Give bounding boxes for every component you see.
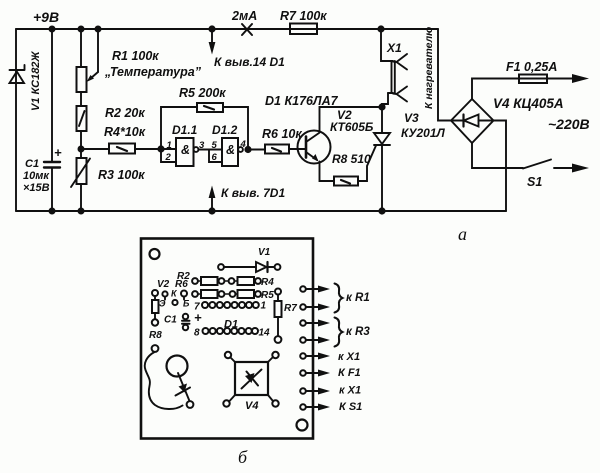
svg-text:C1: C1 [164,315,177,326]
svg-text:R7 100к: R7 100к [280,9,327,23]
labels V2 pins [157,279,190,309]
transistor V2 pads [152,290,187,305]
junction top wiper [95,26,102,33]
IC D1 pads row 2 [203,328,259,334]
svg-text:R8 510: R8 510 [332,152,371,166]
fuse F1 [472,74,589,99]
resistor row R6 R5 [192,290,261,298]
label V4 [493,96,564,111]
label R5 [179,86,226,100]
svg-text:V2: V2 [157,279,170,290]
bridge rectifier V4 [451,99,494,143]
resistor R7 [290,24,317,35]
label pin14 [214,55,285,69]
junction bottom pin7 [208,207,215,214]
junction top rail X1 [377,25,384,32]
svg-text:R7: R7 [284,303,297,314]
svg-text:8: 8 [194,328,200,339]
svg-text:6: 6 [212,152,218,163]
label D1 [224,319,238,331]
label C1 plus [54,145,62,160]
svg-text:X1: X1 [386,41,402,55]
label k R3 [346,326,370,338]
label R8 pcb [149,330,162,341]
label k S1 [339,401,362,413]
label R5 [261,290,274,301]
label 2mA [231,9,257,23]
node input D1.1 [157,145,164,152]
svg-text:R5: R5 [261,290,274,301]
svg-text:5: 5 [212,140,218,151]
svg-text:~220В: ~220В [548,116,590,132]
transistor V2 [298,107,383,181]
svg-text:×15В: ×15В [23,182,50,194]
capacitor C1 [44,29,60,211]
label R2 [177,271,190,282]
label R4 [104,125,146,139]
label R4 [261,277,274,288]
svg-text:V3: V3 [404,111,419,125]
gate D1.1 [161,138,198,166]
resistor R5 [197,103,248,149]
junction bottom R3 [78,208,85,215]
wire bottom rail [16,210,506,212]
resistor row R2 R4 [192,277,261,285]
label C1 pcb [164,310,202,326]
connector X1 [381,29,407,107]
wire feedback left [161,107,197,149]
junction R4 tap [78,146,85,153]
node +9V label [33,9,59,25]
svg-text:&: & [181,143,190,157]
svg-text:2мА: 2мА [231,9,257,23]
label V3 [401,111,446,140]
svg-text:R3 100к: R3 100к [98,168,145,182]
svg-text:R4*10к: R4*10к [104,125,146,139]
svg-text:R6: R6 [175,279,188,290]
label F1 [506,60,557,74]
svg-text:+9В: +9В [33,9,59,25]
svg-text:R2 20к: R2 20к [105,106,145,120]
svg-text:„Температура”: „Температура” [104,65,202,79]
svg-text:2: 2 [165,152,172,163]
svg-text:+: + [54,145,62,160]
label V4 pcb [245,400,258,412]
label S1 [527,175,542,189]
R1 wiper arrow [87,29,99,82]
arrow to pin7 D1 [209,186,216,212]
label a [458,224,467,244]
label D1 type [265,94,339,108]
switch S1 [472,143,589,173]
potentiometer R1 [77,29,87,106]
thyristor V3 pcb [145,345,194,409]
svg-text:7: 7 [194,302,200,313]
label k R1 [346,292,370,304]
label k X1 [338,351,360,363]
svg-text:14: 14 [259,328,271,339]
svg-text:К S1: К S1 [339,401,362,413]
svg-text:V1: V1 [258,247,271,258]
svg-text:R1 100к: R1 100к [112,49,159,63]
svg-text:к R1: к R1 [346,292,370,304]
brace k R1 [335,284,343,313]
label D1.2 pins [212,123,247,163]
labels D1 row1 [194,301,267,313]
node output D1.2 [244,146,251,153]
junction top R1 [78,26,85,33]
label k X1 second [339,385,361,397]
arrow to pin14 D1 [209,29,216,55]
PCB board outline [141,239,313,439]
label mains [548,116,590,132]
zener diode V1 [10,65,25,83]
gate D1.2 [222,138,243,166]
thyristor V3 [374,107,390,211]
svg-text:F1 0,25А: F1 0,25А [506,60,557,74]
svg-text:Б: Б [183,299,190,309]
svg-text:10мк: 10мк [23,170,50,182]
svg-text:К: К [171,289,178,299]
svg-text:D1.1: D1.1 [172,123,198,137]
svg-text:R6 10к: R6 10к [262,127,302,141]
svg-text:б: б [238,447,248,467]
label pin7 [221,186,285,200]
label b [238,447,248,467]
bridge V4 pcb [223,352,278,407]
resistor R8 [334,146,376,186]
label R6 [262,127,302,141]
svg-text:&: & [226,143,235,157]
wire bridge right to bottom rail [494,121,507,212]
IC D1 pads row 1 [202,302,259,308]
label X1 [386,41,402,55]
svg-text:к X1: к X1 [339,385,361,397]
label k F1 [338,367,361,379]
junction bottom V3 [378,207,385,214]
svg-text:D1 К176ЛА7: D1 К176ЛА7 [265,94,339,108]
junction arrow pin14 [208,25,215,32]
label V1 pcb [258,247,271,258]
capacitor C1 pcb [182,314,190,330]
thermistor R3 [71,158,90,211]
label V1 value [30,51,42,111]
svg-text:R4: R4 [261,277,274,288]
svg-text:C1: C1 [25,158,39,170]
label R1 [104,49,202,79]
mounting hole top-left [150,249,160,259]
wire left vertical [15,29,17,211]
labels D1 row2 [194,328,270,339]
junction bottom C1 [49,208,56,215]
svg-text:V4: V4 [245,400,258,412]
svg-text:V1 КС182Ж: V1 КС182Ж [30,51,42,111]
resistor R2 [77,106,87,158]
svg-text:к X1: к X1 [338,351,360,363]
svg-text:КТ605Б: КТ605Б [330,120,374,134]
break mark X on rail [242,24,252,35]
wire gate1 to gate2 [199,149,223,151]
label R7 pcb [284,303,297,314]
resistor R8 pcb [152,300,159,326]
label R7 [280,9,327,23]
wire top rail +9V [16,28,438,30]
diode V1 pads [218,262,280,272]
pin6 loop D1.2 [209,150,222,163]
svg-text:к R3: к R3 [346,326,370,338]
resistor R7 pcb [275,289,282,343]
svg-text:КУ201Л: КУ201Л [401,126,446,140]
junction top C1 [49,26,56,33]
svg-text:К выв. 7D1: К выв. 7D1 [221,186,285,200]
svg-text:V4 КЦ405А: V4 КЦ405А [493,96,564,111]
svg-text:S1: S1 [527,175,542,189]
svg-text:Э: Э [159,299,166,309]
svg-text:R5 200к: R5 200к [179,86,226,100]
resistor R6 [248,145,306,154]
svg-text:1: 1 [261,301,267,312]
label R3 [98,168,145,182]
mounting hole bottom-right [297,420,308,431]
label C1 [23,158,50,194]
svg-text:К F1: К F1 [338,367,361,379]
label R2 [105,106,145,120]
label D1.1 pins [165,123,206,163]
label to heater [423,27,435,109]
label V2 [330,108,374,134]
svg-text:К выв.14 D1: К выв.14 D1 [214,55,285,69]
svg-text:К нагревателю: К нагревателю [423,27,435,109]
junction collector node [378,103,385,110]
svg-text:D1.2: D1.2 [212,123,238,137]
label R8 [332,152,371,166]
svg-text:а: а [458,224,467,244]
brace k R3 [335,318,343,347]
wire top rail right corner [438,29,451,121]
svg-text:R8: R8 [149,330,162,341]
external pads column with arrows [300,286,330,411]
resistor R4 [81,144,161,154]
svg-text:1: 1 [167,140,172,151]
